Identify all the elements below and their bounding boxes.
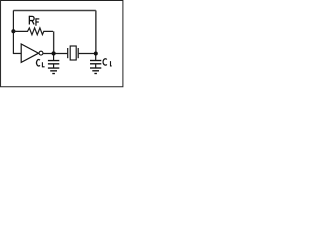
node OUT1 junction dot	[52, 51, 56, 55]
label CL (left)	[37, 60, 45, 67]
inverter U1 triangle	[21, 44, 43, 62]
node IN junction dot	[11, 29, 15, 33]
wire top feedback loop	[13, 9, 95, 11]
wire left vertical from top to inverter input	[12, 10, 14, 53]
wire inverter input	[13, 52, 21, 54]
ground (right)	[90, 68, 101, 74]
wire right vertical from top to node OUT	[95, 10, 97, 53]
resistor RF	[13, 28, 53, 53]
capacitor C2 (right CL)	[90, 53, 101, 67]
enclosure border	[1, 1, 123, 87]
crystal X1	[68, 46, 79, 60]
label CL (right)	[103, 59, 112, 66]
capacitor C1 (left CL)	[48, 53, 59, 67]
node OUT junction dot	[94, 51, 98, 55]
wire crystal to node OUT	[79, 52, 96, 54]
ground (left)	[48, 68, 59, 74]
wire inverter output to crystal	[43, 52, 67, 54]
label RF	[29, 16, 39, 26]
